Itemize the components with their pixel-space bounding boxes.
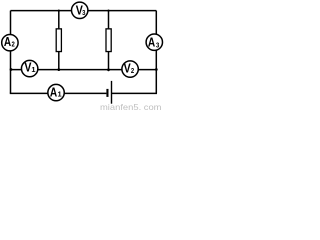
node junction right — [155, 68, 158, 71]
svg-text:3: 3 — [82, 8, 85, 17]
voltmeter V3 — [72, 2, 88, 18]
ammeter A2 — [2, 35, 18, 51]
wire bottom left segment — [10, 92, 107, 94]
node junction left — [10, 68, 13, 71]
svg-text:3: 3 — [156, 40, 159, 49]
node junction R1 bottom — [57, 68, 60, 71]
wire R1 top lead — [58, 11, 60, 29]
ammeter A1 — [48, 84, 64, 100]
svg-text:mianfen5. com: mianfen5. com — [100, 103, 162, 111]
wire bottom right segment — [112, 92, 157, 94]
svg-text:A: A — [4, 35, 11, 49]
svg-text:1: 1 — [31, 65, 35, 74]
wire R2 bottom lead — [108, 52, 110, 70]
battery cell — [107, 81, 111, 104]
node junction R1 top — [58, 10, 60, 12]
ammeter A3 — [146, 34, 162, 50]
resistor R1 — [56, 29, 61, 52]
node junction R2 top — [107, 10, 109, 12]
svg-text:2: 2 — [131, 66, 134, 75]
svg-text:A: A — [148, 36, 155, 50]
resistor R2 — [106, 29, 111, 52]
node junction R2 bottom — [107, 68, 110, 71]
wire R1 bottom lead — [58, 52, 60, 70]
wire left — [10, 11, 12, 94]
wire top — [11, 10, 157, 12]
svg-text:1: 1 — [58, 90, 62, 99]
wire right — [155, 11, 157, 94]
svg-text:2: 2 — [12, 40, 15, 49]
svg-text:A: A — [50, 85, 57, 99]
wire middle — [11, 69, 157, 71]
wire R2 top lead — [108, 11, 110, 29]
voltmeter V2 — [122, 61, 138, 77]
voltmeter V1 — [21, 60, 37, 76]
